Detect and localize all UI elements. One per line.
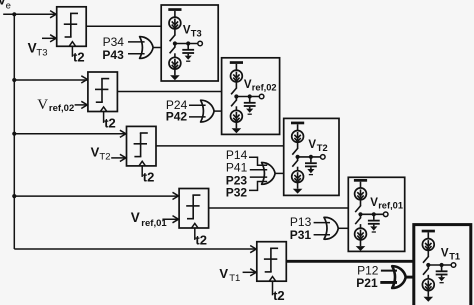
svg-text:t2: t2 xyxy=(143,169,155,184)
current source I1 of cell T1 (V_T1 sample, highlighted) xyxy=(422,239,434,251)
wire Ve to comparator CMP2 top input xyxy=(14,133,126,135)
capacitor of cell T2 (V_T2 sample) xyxy=(305,157,317,169)
capacitor of cell REF01 (V_ref,01 sample) xyxy=(368,214,380,226)
svg-text:P43: P43 xyxy=(102,48,124,62)
svg-text:T3: T3 xyxy=(36,48,47,59)
label V_T2 of cell T2 xyxy=(308,139,327,153)
output node wire of cell REF02 (V_ref,02 sample) xyxy=(236,96,259,98)
or-gate OR13 xyxy=(324,217,338,239)
wire P42 to OR24 xyxy=(189,116,206,118)
switch S2 of cell REF01 (V_ref,01 sample) xyxy=(355,214,361,228)
wire P43 to OR34 xyxy=(128,53,145,55)
switch S1 of cell T1 (V_T1 sample, highlighted) xyxy=(423,250,429,262)
output node wire of cell T2 (V_T2 sample) xyxy=(298,156,321,158)
svg-text:V: V xyxy=(219,266,228,281)
wire P34 to OR34 xyxy=(128,41,145,43)
label V_ref,02 of cell REF02 xyxy=(244,79,277,93)
svg-text:V: V xyxy=(28,41,37,56)
wire P24 to OR24 xyxy=(189,104,206,106)
output node wire of cell REF01 (V_ref,01 sample) xyxy=(361,213,384,215)
junction at switch node of cell REF02 (V_ref,02 sample) xyxy=(234,94,238,98)
cell REF02 (V_ref,02 sample) box outline xyxy=(222,58,280,135)
current source I1 of cell REF02 (V_ref,02 sample) xyxy=(231,70,243,82)
power rail VDD of cell REF02 (V_ref,02 sample) xyxy=(230,61,243,70)
wire OR24 output xyxy=(214,110,222,112)
wire CMP01 output to cell REF01 xyxy=(209,207,349,209)
label V_T2 input xyxy=(91,144,111,162)
wire P31 to OR13 xyxy=(314,234,330,236)
junction at capacitor tap of cell T2 (V_T2 sample) xyxy=(309,155,313,159)
wire P41 to OR4in xyxy=(250,169,267,171)
wire V_ref,02 input stub xyxy=(75,104,88,106)
or-gate OR4in (4-input) xyxy=(262,162,276,184)
wire P12 to OR12 xyxy=(381,270,397,272)
svg-text:P31: P31 xyxy=(290,228,312,242)
svg-text:T2: T2 xyxy=(317,143,328,153)
switch S1 of cell T3 (V_T3 sample) xyxy=(170,29,176,41)
svg-text:ref,02: ref,02 xyxy=(49,103,74,114)
junction at capacitor tap of cell REF02 (V_ref,02 sample) xyxy=(248,94,252,98)
svg-text:T2: T2 xyxy=(99,151,110,162)
svg-text:V: V xyxy=(244,79,252,91)
svg-text:V: V xyxy=(183,25,191,37)
svg-text:T1: T1 xyxy=(229,273,240,284)
svg-text:V: V xyxy=(370,197,378,209)
output node wire of cell T3 (V_T3 sample) xyxy=(175,43,198,45)
junction at capacitor tap of cell T3 (V_T3 sample) xyxy=(186,41,190,45)
label V_T3 of cell T3 xyxy=(183,25,202,39)
svg-text:e: e xyxy=(6,1,11,12)
output terminal of cell REF02 (V_ref,02 sample) xyxy=(259,94,264,99)
label V_T1 input xyxy=(219,266,240,284)
capacitor ground of cell REF02 (V_ref,02 sample) xyxy=(246,109,253,115)
wire Ve to comparator CMP3 top input xyxy=(3,13,56,15)
svg-text:V: V xyxy=(37,97,48,113)
svg-text:t2: t2 xyxy=(273,288,285,303)
wire CMP1 output to cell T1 (thick) xyxy=(286,260,413,263)
power rail VDD of cell T3 (V_T3 sample) xyxy=(168,8,181,17)
output terminal of cell T2 (V_T2 sample) xyxy=(321,155,326,160)
svg-text:P13: P13 xyxy=(290,215,312,229)
current source I1 of cell T3 (V_T3 sample) xyxy=(169,17,181,29)
wire V_T2 input stub xyxy=(111,157,126,159)
capacitor ground of cell T3 (V_T3 sample) xyxy=(185,56,192,62)
wire OR12 output (thick) xyxy=(406,276,414,279)
switch S2 of cell T1 (V_T1 sample, highlighted) xyxy=(423,265,429,279)
junction at capacitor tap of cell T1 (V_T1 sample, highlighted) xyxy=(440,263,444,267)
current source I2 of cell T2 (V_T2 sample) xyxy=(292,171,304,183)
comparator CMP2 (clocked, V_T2) xyxy=(120,126,156,176)
capacitor of cell T1 (V_T1 sample, highlighted) xyxy=(436,265,448,277)
ground of cell T3 (V_T3 sample) xyxy=(170,69,180,80)
power rail VDD of cell T1 (V_T1 sample, highlighted) xyxy=(422,230,435,239)
cell T1 (V_T1 sample, highlighted) box outline xyxy=(414,225,471,305)
wire P23 to OR4in xyxy=(250,176,267,178)
switch S1 of cell REF02 (V_ref,02 sample) xyxy=(231,82,237,94)
net Ve label xyxy=(0,0,11,12)
capacitor ground of cell T1 (V_T1 sample, highlighted) xyxy=(438,277,445,283)
switch S2 of cell T3 (V_T3 sample) xyxy=(170,44,176,58)
wire CMP2 output to cell T2 xyxy=(156,145,284,147)
svg-text:T1: T1 xyxy=(449,251,460,261)
label V_ref,01 of cell REF01 xyxy=(370,197,403,211)
label V_T1 of cell T1 xyxy=(441,247,460,261)
ground of cell T1 (V_T1 sample, highlighted) xyxy=(424,291,434,302)
junction at switch node of cell T3 (V_T3 sample) xyxy=(173,41,177,45)
svg-text:t2: t2 xyxy=(104,115,116,130)
comparator CMP1 (clocked, V_T1) xyxy=(250,242,286,296)
or-gate OR34 xyxy=(140,37,154,59)
wire OR34 output xyxy=(153,47,161,49)
junction Ve row4 xyxy=(12,194,16,198)
or-gate OR24 xyxy=(201,100,215,122)
wire OR13 output xyxy=(338,227,348,229)
svg-text:V: V xyxy=(308,139,316,151)
junction at capacitor tap of cell REF01 (V_ref,01 sample) xyxy=(372,212,376,216)
power rail VDD of cell T2 (V_T2 sample) xyxy=(291,122,304,131)
switch S1 of cell REF01 (V_ref,01 sample) xyxy=(355,200,361,212)
svg-text:T3: T3 xyxy=(191,29,202,39)
svg-text:ref,02: ref,02 xyxy=(252,82,277,92)
switch S2 of cell T2 (V_T2 sample) xyxy=(292,157,298,171)
wire P21 to OR12 (thick) xyxy=(380,281,397,284)
current source I2 of cell REF02 (V_ref,02 sample) xyxy=(231,110,243,122)
svg-text:V: V xyxy=(441,247,449,259)
wire OR4in output xyxy=(275,172,284,174)
svg-text:P21: P21 xyxy=(356,276,378,290)
wire V_T3 input stub xyxy=(42,37,56,39)
junction Ve row2 xyxy=(12,78,16,82)
wire V_ref,01 input stub xyxy=(162,218,178,220)
wire CMP3 output to cell T3 xyxy=(86,25,161,27)
label V_T3 input xyxy=(28,41,48,59)
junction Ve row1 xyxy=(12,12,16,16)
wire P32 to OR4in (elbow) xyxy=(249,182,267,191)
svg-text:t2: t2 xyxy=(73,49,85,64)
svg-text:V: V xyxy=(91,144,100,159)
wire Ve to comparator CMP01 top input xyxy=(14,195,179,197)
current source I1 of cell T2 (V_T2 sample) xyxy=(292,131,304,143)
label V_ref,01 input xyxy=(131,210,168,229)
svg-text:P41: P41 xyxy=(226,161,248,175)
output node wire of cell T1 (V_T1 sample, highlighted) xyxy=(428,264,451,266)
output terminal of cell REF01 (V_ref,01 sample) xyxy=(383,212,388,217)
output terminal of cell T3 (V_T3 sample) xyxy=(198,41,203,46)
power rail VDD of cell REF01 (V_ref,01 sample) xyxy=(354,179,367,188)
comparator CMP3 (clocked, V_T3) xyxy=(50,7,86,57)
label V_ref,02 input xyxy=(37,97,74,114)
capacitor of cell REF02 (V_ref,02 sample) xyxy=(244,97,256,109)
junction at switch node of cell REF01 (V_ref,01 sample) xyxy=(358,212,362,216)
comparator CMP01 (clocked, V_ref01) xyxy=(173,189,209,240)
svg-text:V: V xyxy=(131,210,140,225)
svg-text:P42: P42 xyxy=(166,110,188,124)
wire V_T1 input stub xyxy=(243,271,257,273)
capacitor of cell T3 (V_T3 sample) xyxy=(182,44,194,56)
current source I2 of cell T3 (V_T3 sample) xyxy=(169,57,181,69)
svg-text:P32: P32 xyxy=(226,186,248,200)
svg-text:t2: t2 xyxy=(195,232,207,247)
wire CMP02 output to cell REF02 xyxy=(117,91,221,93)
cell T2 (V_T2 sample) box outline xyxy=(284,118,339,195)
ground of cell REF01 (V_ref,01 sample) xyxy=(356,240,366,251)
current source I2 of cell REF01 (V_ref,01 sample) xyxy=(355,228,367,240)
cell REF01 (V_ref,01 sample) box outline xyxy=(348,177,404,251)
junction Ve row3 xyxy=(12,132,16,136)
cell T3 (V_T3 sample) box outline xyxy=(161,5,218,81)
switch S1 of cell T2 (V_T2 sample) xyxy=(292,142,298,154)
or-gate OR12 (thick) xyxy=(392,266,406,288)
svg-text:ref,01: ref,01 xyxy=(378,201,403,211)
current source I1 of cell REF01 (V_ref,01 sample) xyxy=(355,188,367,200)
junction at switch node of cell T2 (V_T2 sample) xyxy=(296,155,300,159)
ground of cell REF02 (V_ref,02 sample) xyxy=(232,122,242,133)
comparator CMP02 (clocked, V_ref02) xyxy=(81,72,117,123)
current source I2 of cell T1 (V_T1 sample, highlighted) xyxy=(422,279,434,291)
wire P13 to OR13 xyxy=(314,222,330,224)
ground of cell T2 (V_T2 sample) xyxy=(293,183,303,194)
switch S2 of cell REF02 (V_ref,02 sample) xyxy=(231,97,237,111)
capacitor ground of cell T2 (V_T2 sample) xyxy=(307,169,314,175)
wire Ve vertical bus xyxy=(13,14,15,249)
capacitor ground of cell REF01 (V_ref,01 sample) xyxy=(370,226,377,232)
wire P14 to OR4in (elbow) xyxy=(249,157,267,165)
wire Ve to comparator CMP02 top input xyxy=(14,79,87,81)
wire Ve to comparator CMP1 top input xyxy=(14,248,256,250)
junction at switch node of cell T1 (V_T1 sample, highlighted) xyxy=(426,263,430,267)
output terminal of cell T1 (V_T1 sample, highlighted) xyxy=(451,263,456,268)
